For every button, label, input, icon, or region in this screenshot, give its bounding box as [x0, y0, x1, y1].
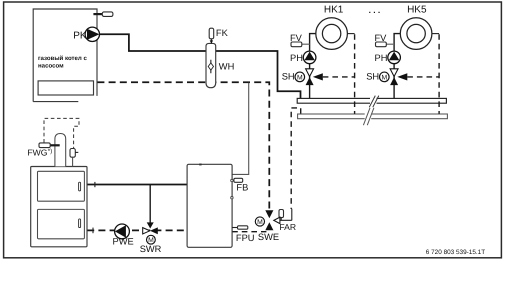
svg-text:PH: PH	[290, 53, 303, 63]
svg-text:M: M	[148, 237, 154, 244]
svg-text:FB: FB	[236, 182, 248, 192]
svg-text:M: M	[257, 219, 263, 226]
svg-text:WH: WH	[219, 62, 235, 72]
svg-text:SWE: SWE	[258, 232, 279, 242]
svg-text:. . .: . . .	[369, 5, 381, 15]
svg-text:FWG: FWG	[27, 148, 47, 158]
svg-text:SH: SH	[282, 72, 295, 82]
svg-text:газовый котел с: газовый котел с	[38, 55, 87, 62]
svg-text:FV: FV	[375, 33, 388, 43]
svg-text:M: M	[297, 74, 303, 81]
svg-text:HK1: HK1	[324, 5, 344, 16]
svg-text:SWR: SWR	[140, 244, 162, 254]
svg-text:HK5: HK5	[407, 5, 427, 16]
svg-text:FV: FV	[290, 33, 303, 43]
svg-text:FAR: FAR	[279, 222, 296, 232]
svg-text:насосом: насосом	[38, 63, 64, 70]
svg-text:FPU: FPU	[236, 233, 255, 243]
svg-text:*): *)	[48, 148, 53, 155]
svg-text:SH: SH	[366, 72, 379, 82]
svg-text:6 720 803 539-15.1T: 6 720 803 539-15.1T	[426, 249, 485, 256]
svg-text:FK: FK	[216, 28, 229, 38]
svg-text:PWE: PWE	[113, 237, 134, 247]
svg-text:PH: PH	[375, 53, 388, 63]
svg-text:M: M	[381, 74, 387, 81]
